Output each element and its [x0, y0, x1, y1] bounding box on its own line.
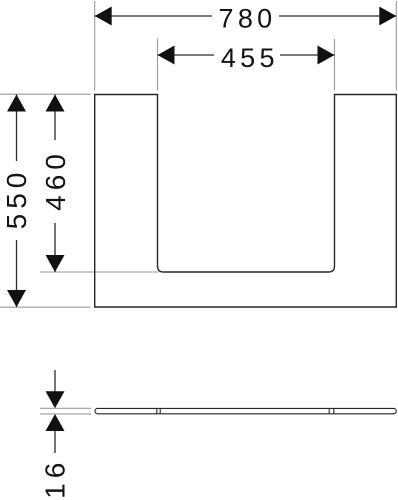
dimension line 16 upper [54, 370, 56, 393]
extension line 550 bottom [0, 306, 91, 308]
dimension line 460 [54, 95, 56, 141]
extension line 780 right [395, 1, 397, 91]
arrow 780 left [95, 7, 112, 26]
dimension line 780 [95, 15, 212, 17]
slab divider left pair [156, 408, 158, 413]
side view slab [95, 408, 396, 413]
arrow 550 top [7, 95, 26, 112]
svg-text:780: 780 [219, 3, 277, 33]
slab divider right pair [328, 408, 330, 413]
extension line 16 bottom [40, 413, 91, 415]
svg-text:455: 455 [221, 43, 279, 73]
arrow 550 bottom [7, 290, 26, 307]
arrow 16 down [46, 391, 65, 408]
dimension line 455 [158, 54, 215, 56]
plate outline (top view, U-shaped cutout) [95, 95, 397, 308]
arrow 455 right [318, 46, 335, 65]
arrow 455 left [158, 46, 175, 65]
extension line 460 bottom [40, 271, 159, 273]
svg-text:16: 16 [40, 458, 71, 499]
extension line 455 left [157, 39, 159, 91]
dimension line 16 lower [54, 430, 56, 453]
extension line 16 top [40, 407, 91, 409]
arrow 460 bottom [46, 255, 65, 272]
arrow 460 top [46, 95, 65, 112]
extension line 455 right [334, 39, 336, 91]
extension line 780 left [94, 1, 96, 91]
arrow 16 up [46, 414, 65, 431]
svg-text:460: 460 [40, 149, 71, 211]
dimension line 550 [16, 95, 18, 162]
arrow 780 right [379, 7, 396, 26]
svg-text:550: 550 [1, 168, 32, 230]
extension line 550 top [0, 93, 91, 95]
